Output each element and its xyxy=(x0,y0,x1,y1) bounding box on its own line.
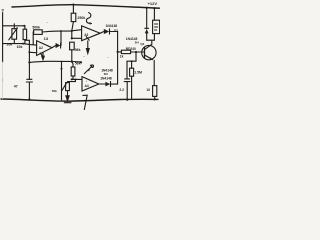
wire base xyxy=(118,51,122,53)
wire RC branch xyxy=(127,52,136,79)
wire 500k left lead down xyxy=(32,32,35,45)
node emitter ground xyxy=(154,98,156,100)
capacitor 2.2u xyxy=(124,79,130,100)
node bridge bottom tap xyxy=(22,43,24,45)
node cap-ground xyxy=(28,98,30,100)
node sense/mid-rail xyxy=(28,61,30,63)
svg-text:Q1: Q1 xyxy=(140,42,144,46)
svg-text:10: 10 xyxy=(146,88,150,92)
wire bridge to sense column xyxy=(25,39,30,41)
relay RL1 xyxy=(153,20,160,33)
node divider mid xyxy=(71,37,73,39)
node bus base tap xyxy=(117,51,119,53)
svg-text:50k: 50k xyxy=(52,89,57,93)
node sense/plus-input xyxy=(28,51,30,53)
svg-text:BD240: BD240 xyxy=(126,47,136,51)
wire A2 output xyxy=(52,46,55,48)
node mid rail end xyxy=(80,61,82,63)
wire A4 input xyxy=(72,78,82,80)
wire OR bus xyxy=(117,32,119,85)
wire A3 output xyxy=(100,32,103,34)
Norton arrow A2 xyxy=(40,53,43,56)
diode D2 xyxy=(104,29,110,34)
wire pot top xyxy=(68,79,76,82)
node pot tap xyxy=(74,78,76,80)
diode D3 diagonal xyxy=(84,65,93,74)
svg-text:56k: 56k xyxy=(75,48,81,52)
node ground drop xyxy=(61,68,63,70)
resistor 1k xyxy=(121,50,130,53)
stray mark 7 xyxy=(83,95,87,109)
stray squiggle mark xyxy=(86,13,91,24)
wire D1 feedback node xyxy=(60,31,62,45)
diode D4 flyback xyxy=(145,8,149,40)
op-amp A2 xyxy=(37,41,52,56)
wire D4 to bus corner xyxy=(111,83,118,85)
svg-text:56k: 56k xyxy=(75,62,81,66)
transistor Q1 xyxy=(142,40,156,85)
svg-text:10k: 10k xyxy=(17,45,23,49)
wire collector junction xyxy=(147,39,155,41)
wire sense column xyxy=(28,40,30,79)
svg-text:1k: 1k xyxy=(120,54,124,58)
ground bar xyxy=(64,102,71,104)
node D4 supply xyxy=(146,7,148,9)
wire D2 to bus xyxy=(110,31,118,33)
wire A3 plus input xyxy=(72,30,82,31)
svg-text:500k: 500k xyxy=(32,26,40,30)
resistor 56k lower xyxy=(71,67,75,79)
wire A2 inverting input xyxy=(23,44,37,46)
svg-text:D3: D3 xyxy=(104,72,108,76)
resistor 56k upper xyxy=(70,42,75,67)
wire A3 minus input xyxy=(72,37,82,39)
wire relay lead xyxy=(153,8,155,20)
node mid rail 56k xyxy=(71,60,73,62)
svg-text:+12V: +12V xyxy=(148,1,158,6)
wire bottom ground rail xyxy=(1,99,158,101)
wire 1k to base xyxy=(131,51,145,53)
node cap ground xyxy=(126,99,128,101)
potentiometer 50k xyxy=(62,83,69,91)
wire A2 non-inverting input xyxy=(29,51,36,53)
diode D1 xyxy=(56,43,61,48)
node 500k feedback xyxy=(60,30,62,32)
scan specks xyxy=(2,22,108,82)
capacitor C1 47u xyxy=(26,79,32,99)
arrow A2 to mid rail xyxy=(42,53,45,60)
svg-text:13: 13 xyxy=(44,36,49,41)
resistor 10 emitter xyxy=(153,86,157,100)
diode D4 output xyxy=(105,82,110,87)
resistor 1.5M xyxy=(130,61,134,99)
node A3 plus input xyxy=(71,30,73,32)
wire mid rail xyxy=(29,61,81,62)
svg-text:250k: 250k xyxy=(77,16,85,20)
arrow A3 down xyxy=(86,41,89,54)
wire relay bottom xyxy=(153,34,155,41)
wire A4 output xyxy=(99,83,105,85)
resistor 250k xyxy=(71,5,76,39)
svg-text:D4: D4 xyxy=(135,41,139,45)
node 250k top xyxy=(72,4,74,6)
op-amp A4 xyxy=(82,77,99,91)
Norton arrow A3 xyxy=(86,37,89,41)
wire left rail xyxy=(2,13,4,63)
wire 500k right lead to node xyxy=(42,30,72,33)
node relay supply xyxy=(153,7,155,9)
node A4 input xyxy=(71,78,73,80)
svg-text:1N4148: 1N4148 xyxy=(106,24,118,28)
svg-text:10k: 10k xyxy=(6,42,12,46)
svg-text:47: 47 xyxy=(14,85,18,89)
svg-text:1N4148: 1N4148 xyxy=(100,77,112,81)
svg-text:A2: A2 xyxy=(39,46,43,50)
thermistor TH1 10k xyxy=(9,24,18,44)
op-amp A3 xyxy=(82,26,101,41)
wire top supply rail xyxy=(12,5,160,9)
node bridge top-right corner xyxy=(23,25,25,27)
wire bridge top xyxy=(3,25,25,27)
wire left rail lower faint xyxy=(2,62,4,99)
node 1.5M tap xyxy=(131,60,133,62)
resistor bridge 10k xyxy=(23,26,27,44)
svg-text:1.5M: 1.5M xyxy=(134,71,142,75)
svg-text:2.2: 2.2 xyxy=(119,88,124,92)
arrow pot to ground xyxy=(66,91,69,101)
wire bridge bottom xyxy=(3,43,25,45)
wire ground drop xyxy=(61,61,63,100)
svg-text:A4: A4 xyxy=(85,84,89,88)
potentiometer 500k xyxy=(34,30,43,35)
node RC tap xyxy=(135,51,137,53)
